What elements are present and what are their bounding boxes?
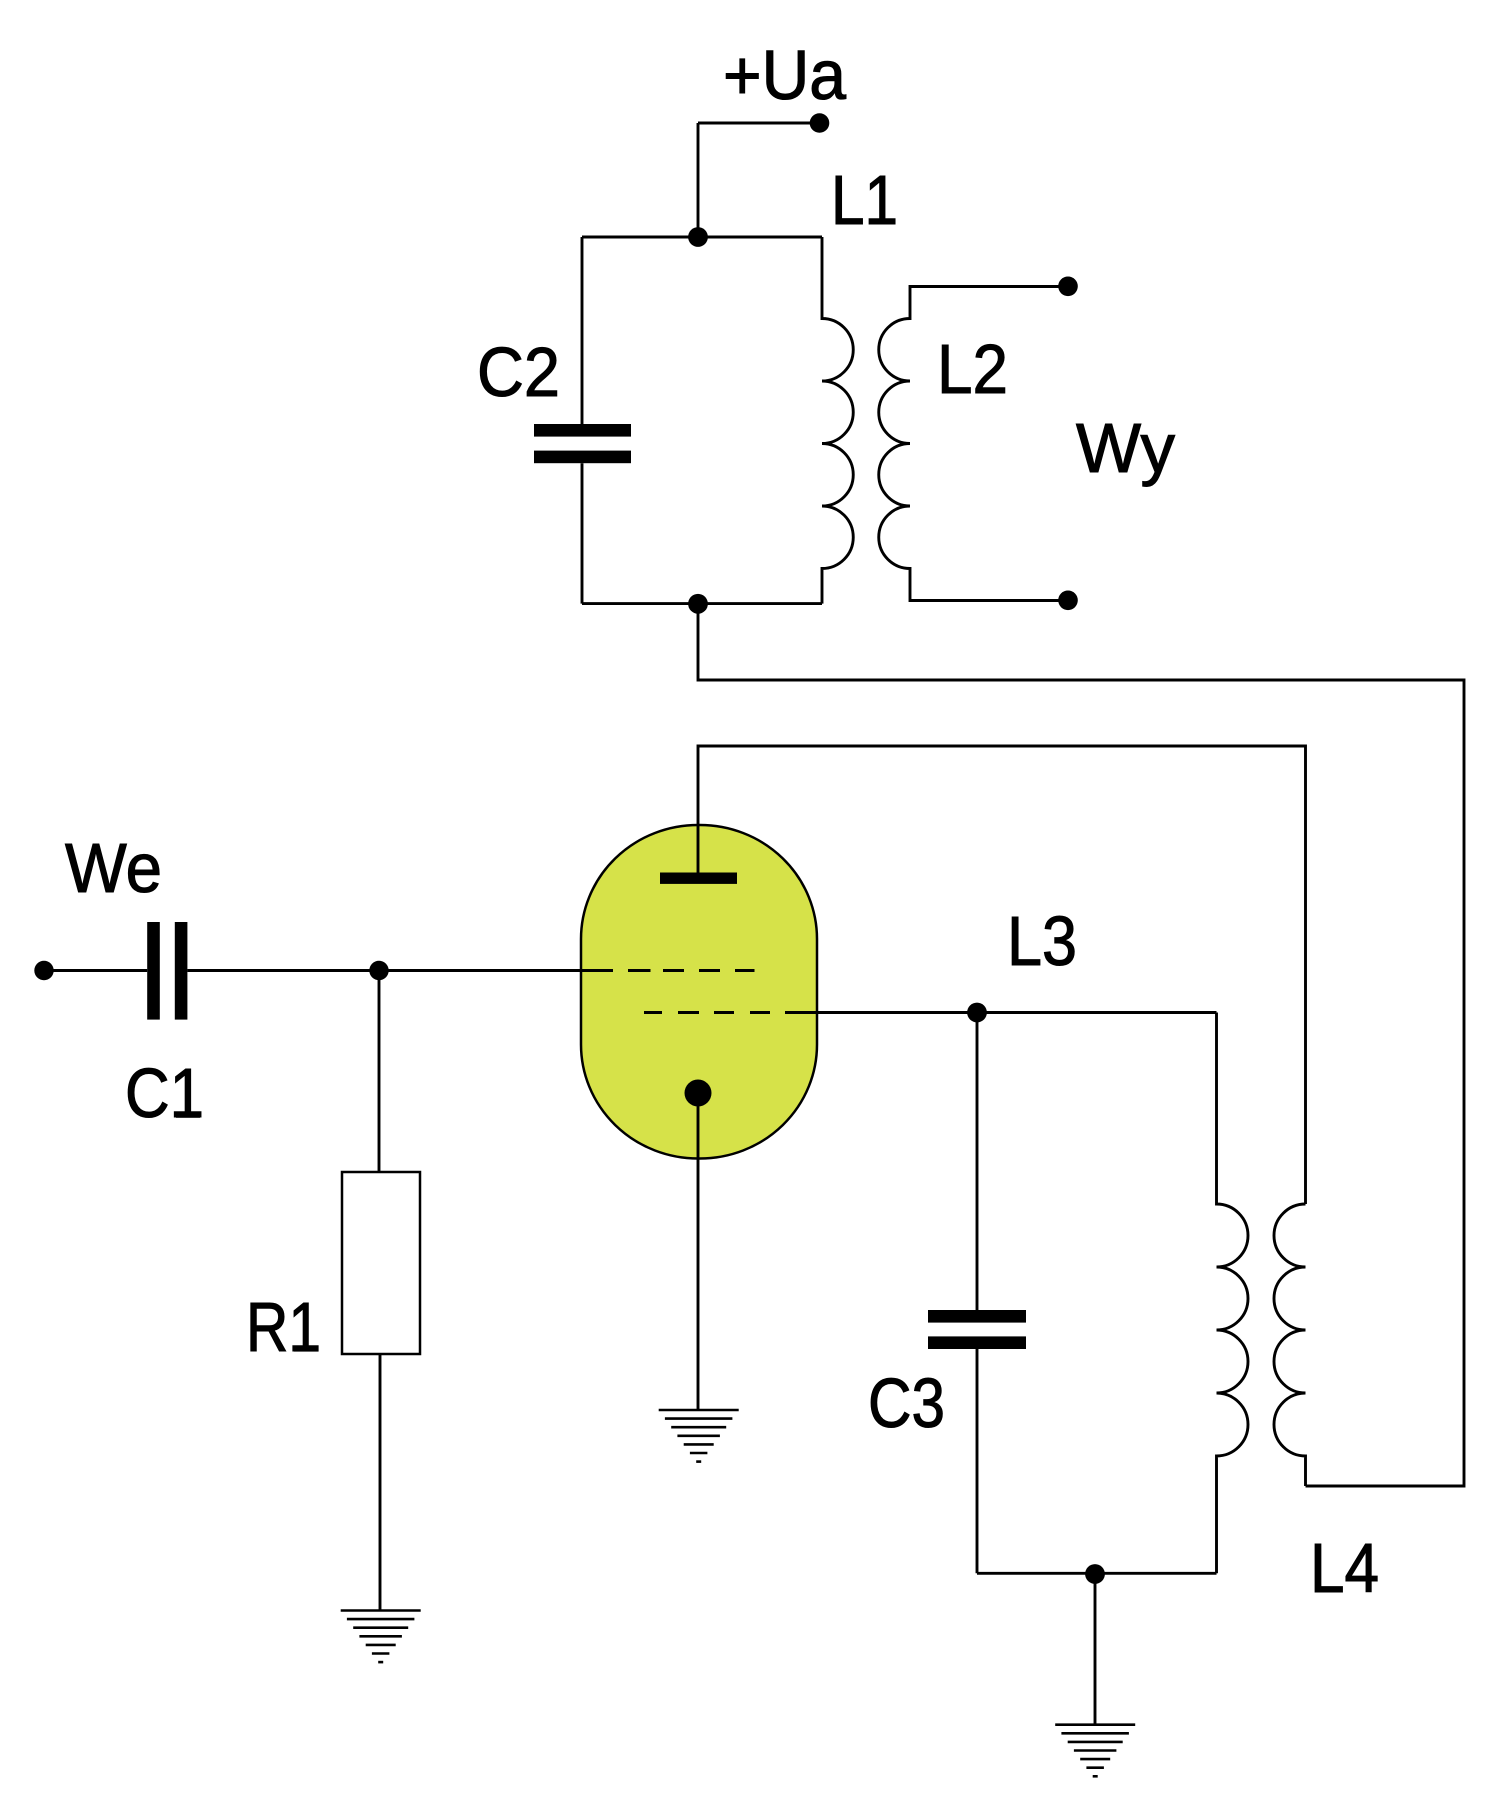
capacitor C1 left plate bbox=[147, 922, 160, 1020]
ground R1 bbox=[341, 1611, 421, 1663]
inductor L2 bbox=[879, 287, 1068, 601]
wire anode net: tube anode up, across, down to L4 top bbox=[698, 746, 1306, 1204]
ground L3/C3 bbox=[1055, 1725, 1135, 1777]
node We input terminal dot bbox=[34, 961, 53, 980]
wire +Ua lead vertical bbox=[697, 123, 700, 237]
capacitor C2 top plate bbox=[534, 424, 631, 437]
wire input to C1 bbox=[44, 969, 147, 972]
triode U1 grid 1 dashes bbox=[628, 969, 755, 972]
wire bottom of C3/L3 bbox=[977, 1572, 1217, 1575]
svg-text:Wy: Wy bbox=[1076, 409, 1175, 487]
triode U1 envelope bbox=[581, 825, 817, 1159]
wire cathode lead to ground bbox=[697, 1093, 700, 1410]
wire C1 to grid bbox=[187, 969, 613, 972]
inductor L3 bbox=[1217, 1013, 1249, 1574]
label R1 digit foot serif bbox=[294, 1346, 318, 1351]
triode U1 cathode dot bbox=[685, 1080, 712, 1107]
wire C3 upper lead bbox=[976, 1013, 979, 1311]
capacitor C3 bottom plate bbox=[928, 1336, 1026, 1349]
svg-text:L1: L1 bbox=[831, 161, 898, 239]
svg-text:L2: L2 bbox=[937, 330, 1008, 408]
svg-text:R1: R1 bbox=[246, 1288, 321, 1366]
node Wy upper terminal dot bbox=[1058, 277, 1078, 297]
inductor L1 bbox=[822, 237, 853, 604]
node +Ua terminal dot bbox=[810, 113, 830, 133]
label C1 digit foot serif bbox=[176, 1112, 200, 1117]
label L1 digit foot serif bbox=[872, 219, 896, 224]
wire screen grid to L3 top bbox=[785, 1011, 1217, 1014]
node junction bottom of L1/C2 bbox=[688, 594, 708, 614]
wire +Ua lead horizontal bbox=[698, 122, 819, 125]
capacitor C3 top plate bbox=[928, 1310, 1026, 1323]
capacitor C1 right plate bbox=[175, 922, 188, 1020]
node Wy lower terminal dot bbox=[1058, 591, 1078, 611]
ground cathode bbox=[659, 1410, 739, 1462]
svg-text:We: We bbox=[65, 829, 162, 907]
wire feedback lower: node to right edge down to L4 bottom bbox=[698, 604, 1464, 1486]
triode U1 anode bar bbox=[660, 873, 737, 884]
svg-text:C3: C3 bbox=[868, 1364, 945, 1442]
wire top node horizontal bbox=[582, 236, 822, 239]
node junction top (anode supply node) bbox=[688, 227, 708, 247]
node junction C3/L3 top bbox=[967, 1003, 987, 1023]
svg-text:C2: C2 bbox=[477, 333, 560, 411]
wire C2 lower lead bbox=[581, 463, 584, 603]
inductor L4 bbox=[1274, 1204, 1305, 1486]
triode U1 grid 2 dashes bbox=[644, 1011, 770, 1014]
wire to ground 3 bbox=[1094, 1574, 1097, 1725]
triode U1 anode lead (redrawn over envelope) bbox=[697, 825, 700, 873]
resistor R1 bbox=[342, 1172, 420, 1354]
wire bottom node horizontal bbox=[582, 602, 822, 605]
wire C3 lower lead bbox=[976, 1349, 979, 1573]
svg-text:C1: C1 bbox=[125, 1054, 204, 1132]
svg-text:L3: L3 bbox=[1007, 902, 1077, 980]
svg-text:+Ua: +Ua bbox=[723, 36, 846, 114]
svg-text:L4: L4 bbox=[1310, 1529, 1379, 1607]
node junction C3/L3 bottom bbox=[1085, 1564, 1105, 1584]
capacitor C2 bottom plate bbox=[534, 451, 631, 464]
wire R1 to ground bbox=[379, 1354, 382, 1611]
node junction grid/R1 bbox=[369, 961, 388, 980]
wire C2 upper lead bbox=[581, 237, 584, 424]
wire junction to R1 bbox=[378, 971, 381, 1173]
